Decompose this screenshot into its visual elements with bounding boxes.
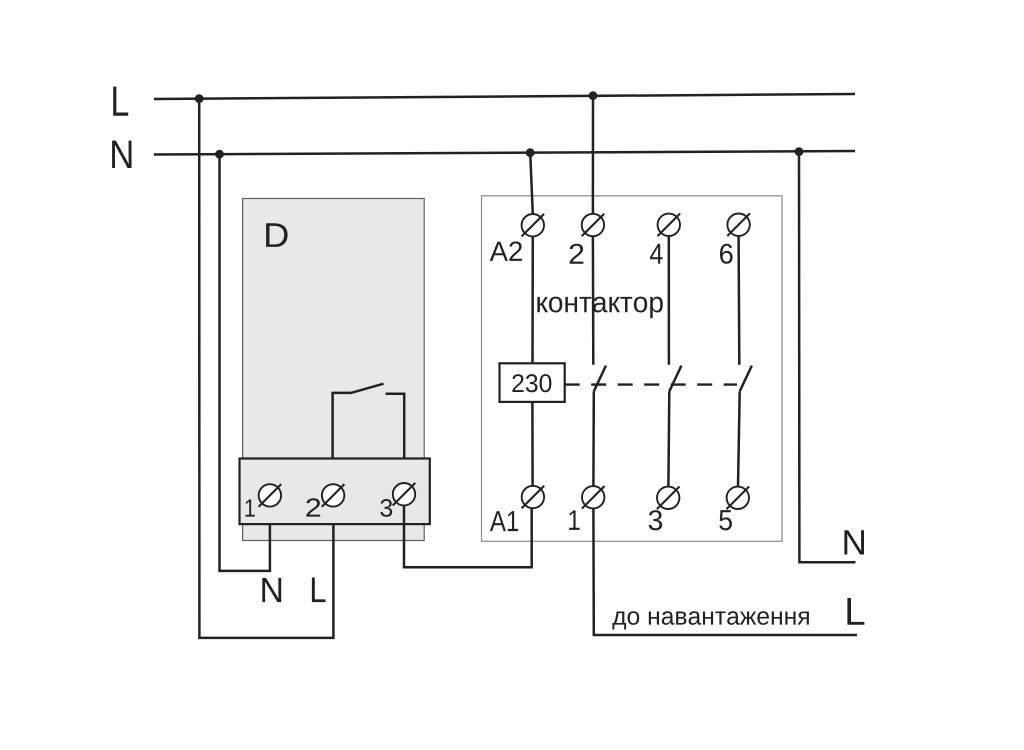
pole 3 upper wire (737, 236, 740, 365)
pole 2 lower wire (667, 391, 670, 486)
pole 2 upper wire (668, 236, 671, 365)
wire D terminal 3 to contactor A1 (404, 506, 532, 567)
junction dot on N at x=799 (795, 147, 804, 156)
wire N bus to load N (799, 152, 856, 563)
pole 3 blade (740, 366, 752, 392)
pole 1 upper wire (592, 236, 595, 365)
terminal 1 label (246, 499, 255, 516)
label L supply (113, 87, 128, 116)
label L load (847, 598, 864, 625)
terminal 3 label (380, 499, 392, 517)
label 3 (649, 510, 662, 530)
contactor terminal 1 circle (582, 486, 605, 509)
junction dot on N at x=219 (215, 150, 224, 159)
label A1 (490, 511, 518, 531)
pole 2 blade (669, 366, 681, 392)
contactor terminal A1 circle (522, 486, 545, 509)
label 4 (650, 244, 663, 264)
junction dot on L at x=199 (195, 94, 204, 103)
wire contactor 1 to load L (593, 509, 857, 636)
label 6 (720, 244, 733, 264)
D terminal strip (240, 459, 430, 525)
label до навантаження (612, 611, 809, 629)
D terminal 1 circle (259, 484, 282, 507)
bus L (154, 94, 855, 99)
label 5 (719, 510, 732, 530)
pole 1 lower wire (592, 391, 595, 486)
switch contact inside D (333, 384, 405, 484)
contactor terminal 3 circle (657, 487, 680, 510)
D terminal 3 circle (393, 483, 416, 506)
label L output (312, 578, 326, 603)
junction dot on L at x=593 (589, 91, 598, 100)
contactor terminal 2 circle (582, 214, 605, 237)
label N output (262, 578, 281, 602)
pole 1 blade (594, 366, 606, 392)
contactor terminal 5 circle (727, 487, 750, 510)
wire A2 to coil (531, 236, 534, 363)
wire L bus to D terminal 2 (199, 99, 333, 638)
wire N bus to D terminal 1 (220, 154, 270, 571)
terminal 2 label (306, 498, 320, 516)
coil value 230 (512, 374, 551, 392)
contactor body (482, 196, 783, 542)
contactor terminal 6 circle (727, 213, 750, 236)
junction dot on N at x=530 (526, 148, 535, 157)
coil box (500, 363, 565, 402)
coil linkage dashed line (565, 383, 737, 385)
wire N bus to contactor A2 (530, 153, 533, 214)
D terminal 2 circle (322, 484, 345, 507)
contactor terminal 4 circle (658, 214, 681, 237)
bus N (154, 151, 855, 155)
label 1 (569, 510, 579, 530)
label контактор (537, 297, 662, 319)
device D body (243, 199, 425, 541)
label A2 (490, 241, 522, 261)
wire L bus to contactor terminal 2 (592, 96, 595, 214)
label D (266, 223, 288, 247)
label 2 (570, 244, 584, 264)
label N supply (112, 141, 131, 168)
pole 3 lower wire (738, 391, 740, 486)
wire coil to A1 (531, 402, 534, 486)
contactor terminal A2 circle (522, 214, 545, 237)
label N load (844, 530, 864, 554)
